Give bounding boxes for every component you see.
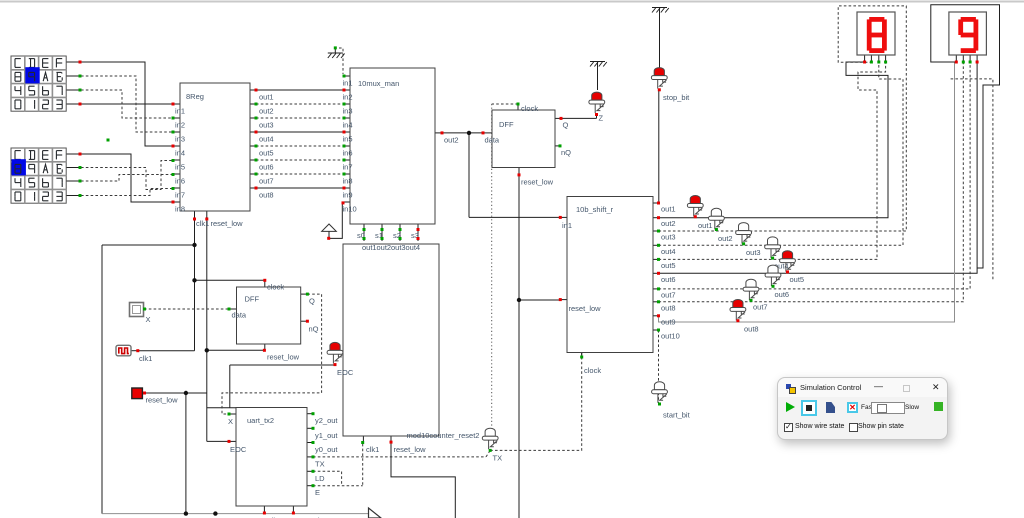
svg-text:nQ: nQ: [309, 325, 319, 334]
svg-text:out2: out2: [661, 219, 676, 228]
svg-text:reset_low: reset_low: [569, 304, 602, 313]
svg-text:out8: out8: [259, 191, 274, 200]
svg-text:in4: in4: [175, 149, 185, 158]
svg-text:y0_out: y0_out: [315, 445, 338, 454]
svg-text:data: data: [485, 136, 500, 145]
svg-text:DFF: DFF: [499, 120, 514, 129]
svg-text:out5: out5: [661, 261, 676, 270]
svg-text:out3: out3: [391, 243, 406, 252]
svg-text:in1: in1: [562, 221, 572, 230]
svg-text:out1: out1: [259, 93, 274, 102]
svg-text:EOC: EOC: [337, 368, 354, 377]
svg-text:out6: out6: [661, 275, 676, 284]
svg-text:reset_low: reset_low: [394, 445, 427, 454]
svg-text:out4: out4: [259, 135, 274, 144]
svg-text:TX: TX: [493, 454, 503, 463]
svg-text:out4: out4: [661, 247, 676, 256]
svg-text:in2: in2: [343, 93, 353, 102]
svg-text:Q: Q: [563, 121, 569, 130]
svg-text:in3: in3: [175, 135, 185, 144]
svg-text:X: X: [228, 417, 233, 426]
svg-text:Z: Z: [599, 114, 604, 123]
svg-text:clock: clock: [267, 283, 284, 292]
svg-text:clock: clock: [521, 104, 538, 113]
svg-text:E: E: [315, 488, 320, 497]
svg-text:data: data: [232, 311, 247, 320]
svg-text:out4: out4: [406, 243, 421, 252]
svg-text:in2: in2: [175, 121, 185, 130]
svg-text:out7: out7: [661, 290, 676, 299]
svg-text:out1: out1: [698, 221, 713, 230]
svg-text:out10: out10: [661, 332, 680, 341]
svg-text:in1: in1: [175, 107, 185, 116]
svg-text:out2: out2: [718, 234, 733, 243]
svg-text:out2: out2: [259, 107, 274, 116]
svg-text:out8: out8: [744, 325, 759, 334]
svg-text:in7: in7: [343, 163, 353, 172]
svg-text:out3: out3: [661, 233, 676, 242]
svg-text:out9: out9: [661, 317, 676, 326]
svg-text:out3: out3: [746, 248, 761, 257]
svg-text:in5: in5: [343, 135, 353, 144]
svg-text:y2_out: y2_out: [315, 416, 338, 425]
svg-text:in8: in8: [343, 177, 353, 186]
svg-text:clk1: clk1: [139, 354, 152, 363]
svg-text:in9: in9: [343, 191, 353, 200]
svg-text:DFF: DFF: [245, 295, 260, 304]
svg-text:uart_tx2: uart_tx2: [247, 416, 274, 425]
svg-text:out7: out7: [259, 177, 274, 186]
svg-text:out1: out1: [362, 243, 377, 252]
svg-text:out2: out2: [377, 243, 392, 252]
svg-text:clock: clock: [584, 366, 601, 375]
svg-text:8Reg: 8Reg: [186, 92, 204, 101]
svg-text:out3: out3: [259, 121, 274, 130]
svg-text:out8: out8: [661, 303, 676, 312]
svg-text:reset_low: reset_low: [521, 178, 554, 187]
svg-text:10b_shift_r: 10b_shift_r: [576, 205, 614, 214]
svg-text:stop_bit: stop_bit: [663, 93, 690, 102]
svg-text:in5: in5: [175, 163, 185, 172]
svg-text:in8: in8: [175, 205, 185, 214]
svg-text:out5: out5: [790, 275, 805, 284]
svg-text:out2: out2: [444, 136, 459, 145]
svg-text:in4: in4: [343, 121, 353, 130]
svg-text:EOC: EOC: [230, 445, 247, 454]
svg-text:clk1: clk1: [366, 445, 379, 454]
svg-text:reset_low: reset_low: [146, 396, 179, 405]
svg-text:LD: LD: [315, 474, 325, 483]
svg-text:10mux_man: 10mux_man: [358, 79, 399, 88]
svg-text:start_bit: start_bit: [663, 411, 691, 420]
svg-text:y1_out: y1_out: [315, 431, 338, 440]
svg-text:in7: in7: [175, 191, 185, 200]
svg-text:out6: out6: [259, 163, 274, 172]
svg-text:nQ: nQ: [561, 148, 571, 157]
svg-text:X: X: [146, 315, 151, 324]
svg-text:reset_low: reset_low: [211, 219, 244, 228]
svg-text:in6: in6: [343, 149, 353, 158]
svg-text:out5: out5: [259, 149, 274, 158]
svg-text:in10: in10: [343, 205, 357, 214]
svg-text:in6: in6: [175, 177, 185, 186]
svg-text:out6: out6: [775, 290, 790, 299]
svg-text:mod10counter_reset2: mod10counter_reset2: [407, 431, 480, 440]
svg-text:out7: out7: [753, 303, 768, 312]
svg-text:reset_low: reset_low: [267, 353, 300, 362]
svg-text:Q: Q: [309, 297, 315, 306]
svg-text:TX: TX: [315, 459, 325, 468]
svg-text:in1: in1: [343, 79, 353, 88]
svg-text:in3: in3: [343, 107, 353, 116]
svg-text:out1: out1: [661, 205, 676, 214]
